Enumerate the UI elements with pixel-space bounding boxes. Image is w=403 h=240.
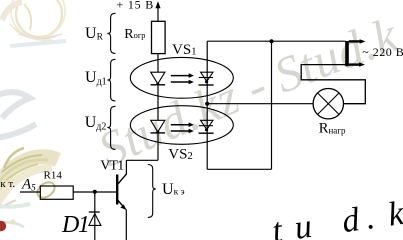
watermark logo top-left swirl [2,0,66,46]
wire +15V supply vertical [157,7,159,22]
wire corner to collector column [126,159,158,161]
resistor Rogr box [152,21,166,53]
diode D1 triangle [89,214,101,226]
terminal 220V top arrow [360,39,366,43]
LED D(VS2) triangle [151,120,165,132]
light arrows VS1 [171,76,190,82]
wire Rogr to LED1 [157,54,159,72]
photothyristor VS2 cathode bar [199,132,214,134]
diode D1 wire [94,192,96,240]
watermark gray curves left edge [0,92,36,138]
watermark logo bottom-left blob [0,148,58,231]
resistor R14 box [40,186,73,199]
wire collector vertical [125,160,127,174]
svg-text:+ 15 В: + 15 В [117,0,155,12]
transistor VT1 emitter arrow [120,204,126,209]
arrow +15V up [155,1,160,8]
wire output bottom line [207,168,271,170]
node VS2 apex dot [205,128,208,131]
wire LED1 to LED2 [157,85,159,121]
wire LED2 down to corner [157,133,159,160]
svg-text:~ 220 В: ~ 220 В [362,45,403,59]
terminal 220V thick bar [345,41,349,66]
svg-text:VT1: VT1 [100,158,124,173]
diode D1 cathode bar [89,211,100,213]
optocoupler VS2 ellipse [130,106,233,145]
wire output top line [207,40,345,42]
optocoupler VS1 ellipse [130,57,233,98]
wire lamp line [207,103,313,105]
node lamp junction dot [205,102,209,106]
photothyristor VS2 mid line [199,125,213,127]
brace U_ke [148,165,156,218]
terminal 220V bottom lead [349,63,360,65]
wire output right vertical [271,41,273,169]
node base junction dot [93,190,97,194]
wire base [73,191,117,193]
photothyristor VS1 cathode bar [199,84,214,86]
lamp Rnagr circle [313,89,343,119]
wire lamp right loop [301,65,365,104]
photothyristor VS1 triangle [201,72,213,81]
svg-text:R14: R14 [44,170,63,182]
LED VS1 cathode bar [151,84,166,86]
wire photothyristor column [206,41,208,169]
node VS1 apex dot [205,80,208,83]
LED VS2 cathode bar [151,132,166,134]
brace U_d1 [107,59,115,101]
node LED1 apex dot [156,83,159,86]
terminal 220V bottom arrow [359,62,365,66]
terminal 220V top lead [349,40,361,42]
transistor VT1 collector diagonal [117,174,127,185]
light arrows VS2 [171,125,190,131]
node LED2 apex dot [156,131,159,134]
brace U_d2 [107,106,115,149]
svg-text:D1: D1 [61,212,88,238]
wire R14 to A5 [20,191,40,193]
photothyristor VS2 triangle [201,120,213,129]
LED D(VS1) triangle [151,72,165,84]
svg-text:к т.: к т. [0,178,15,190]
photothyristor VS1 mid line [199,77,213,79]
transistor VT1 base bar [116,175,118,205]
wire emitter down [125,209,127,240]
node top line junction dot [270,39,274,43]
brace U_R [107,13,115,53]
transistor VT1 emitter diagonal [117,200,126,210]
lamp cross [318,93,339,114]
